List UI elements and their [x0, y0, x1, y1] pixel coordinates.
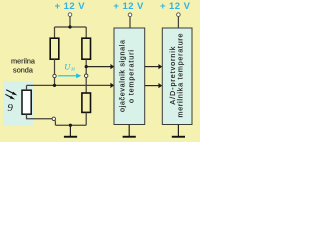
- svg-text:+ 12 V: + 12 V: [55, 1, 86, 12]
- wire: R2 bottom down to R3: [85, 59, 87, 93]
- terminal circle left (Uu measuring point): [53, 74, 56, 77]
- supply terminal circle 3: [177, 13, 181, 17]
- junction dot left node: [53, 84, 56, 87]
- svg-text:+ 12 V: + 12 V: [160, 1, 191, 12]
- resistor R3 (bottom right): [82, 93, 91, 112]
- svg-text:sonda: sonda: [13, 66, 34, 75]
- wire: connector to ground rail: [54, 121, 56, 126]
- connector circle bottom: [52, 117, 55, 120]
- terminal circle right (Uu measuring point): [85, 74, 88, 77]
- voltage arrow Uu: [58, 75, 78, 77]
- svg-text:ojačevalnik signala: ojačevalnik signala: [118, 40, 127, 112]
- svg-text:9: 9: [7, 102, 13, 114]
- wire: supply 1 down to branch: [69, 16, 71, 27]
- wire: thermistor top up and right to left node: [26, 85, 28, 90]
- heat arrow 1: [6, 90, 14, 94]
- wire: bottom ground rail: [55, 124, 86, 126]
- resistor R2 (top right): [82, 38, 91, 59]
- thermistor (in probe): [22, 90, 31, 114]
- wire: right branch down to R2: [85, 27, 87, 38]
- svg-text:merilnika temperature: merilnika temperature: [176, 34, 185, 118]
- resistor R1 (top left): [50, 38, 59, 59]
- wire: supply 2 into amplifier: [129, 16, 131, 28]
- arrowhead into amplifier top: [110, 64, 114, 69]
- ground (amplifier): [128, 125, 130, 137]
- ground (circuit): [69, 125, 71, 136]
- svg-text:merilna: merilna: [11, 56, 36, 65]
- supply terminal circle 1: [68, 13, 72, 17]
- amplifier box U1: [114, 28, 145, 125]
- signal arrow amplifier to A/D (top): [145, 66, 159, 68]
- wire: thermistor bottom to connector: [27, 114, 53, 119]
- wire: R1 bottom to left node: [54, 59, 56, 85]
- probe body (merilna sonda): [3, 81, 33, 126]
- heat arrow 2: [5, 94, 12, 98]
- svg-text:M: M: [70, 66, 75, 71]
- arrowhead into amplifier bottom: [110, 83, 114, 88]
- junction dot ground rail: [69, 124, 72, 127]
- junction dot right node: [85, 65, 88, 68]
- supply terminal circle 2: [128, 13, 132, 17]
- ground (A/D): [177, 125, 179, 137]
- wire: left branch down to R1: [54, 27, 56, 38]
- junction dot at branch: [68, 25, 71, 28]
- svg-text:U: U: [64, 63, 71, 72]
- svg-text:+ 12 V: + 12 V: [113, 1, 144, 12]
- signal arrow amplifier to A/D (bottom): [145, 85, 159, 87]
- wire: R3 bottom down: [85, 112, 87, 125]
- wire: top branch horizontal: [55, 26, 87, 28]
- wire: left node to amplifier input (bottom), crosses right branch: [27, 84, 112, 86]
- wire: right node to amplifier input (top): [86, 66, 111, 68]
- svg-text:o temperaturi: o temperaturi: [126, 50, 135, 103]
- A/D converter box U2: [162, 28, 192, 125]
- wire: supply 3 into A/D: [177, 16, 179, 28]
